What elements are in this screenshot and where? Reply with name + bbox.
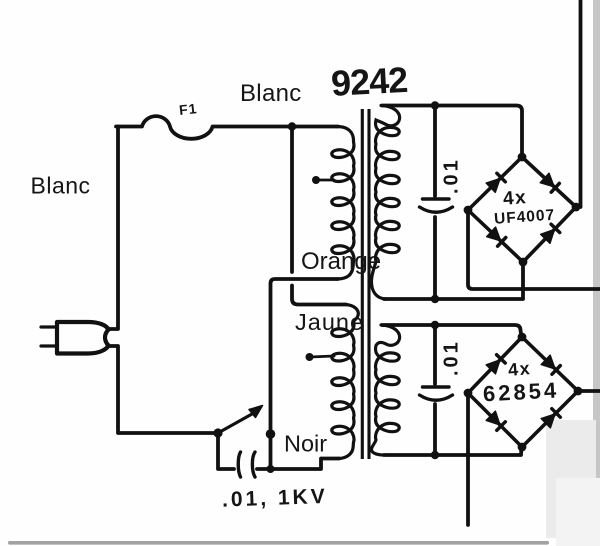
transformer T1 upper primary winding — [332, 127, 354, 280]
wire: plug upper terminal up to top Blanc wire — [108, 127, 119, 330]
wire: BR2 right vertex DC lead off-page right — [578, 389, 600, 393]
wire: upper filter cap C1 bottom lead — [433, 217, 437, 299]
transformer T1 upper secondary winding — [371, 106, 399, 300]
svg-text:9242: 9242 — [330, 59, 408, 104]
transformer T1 core left lamination — [361, 109, 364, 459]
wire: Jaune feed down x=292 (break where it crosses Orange wire) — [290, 127, 294, 273]
wire: Orange lead left then down to switch fixed contact — [271, 279, 339, 469]
junction: switch fixed contact — [266, 429, 276, 439]
capacitor C1 flat plate — [423, 197, 450, 200]
lower primary tap lead — [310, 356, 334, 357]
junction: switch pole — [213, 428, 222, 437]
svg-text:.01: .01 — [441, 157, 463, 194]
capacitor C2 flat plate — [423, 385, 450, 388]
capacitor C2 curved plate — [420, 395, 453, 400]
upper primary tap lead — [317, 179, 334, 182]
junction: C2 bottom node — [431, 451, 439, 459]
wire: upper secondary top to bridge BR1 top vertex — [382, 106, 522, 157]
transformer T1 lower primary winding — [332, 305, 358, 459]
svg-text:.01, 1KV: .01, 1KV — [222, 485, 328, 512]
wire: upper filter cap C1 top lead — [433, 106, 437, 197]
wire: BR1 right vertex DC lead right then up off-page — [576, 0, 581, 207]
transformer T1 core right lamination — [367, 109, 370, 459]
wire: BR1 left vertex DC lead down then right off-page — [468, 211, 600, 289]
svg-text:4x: 4x — [507, 358, 532, 380]
switch S1 lever with arrow tip — [218, 406, 263, 434]
wire: Noir lead with step to lower primary — [271, 459, 340, 470]
wire: plug lower terminal down and along bottom to switch pole — [108, 346, 219, 433]
svg-text:Blanc: Blanc — [240, 80, 302, 107]
scan artifact: right gray band — [593, 0, 600, 496]
wire: snubber branch below switch pole — [218, 433, 234, 469]
wire: upper secondary bottom to bridge BR1 bottom vertex — [384, 262, 523, 299]
transformer T1 lower secondary winding — [371, 325, 399, 455]
wire: lower filter cap C2 top lead — [433, 325, 437, 384]
wire: lower secondary bottom to bridge BR2 bottom vertex — [384, 447, 522, 455]
junction: C1 top node — [431, 101, 439, 109]
scan artifact: bottom gray line — [8, 541, 549, 545]
svg-text:4x: 4x — [502, 187, 528, 210]
bridge rectifier BR1 — [464, 153, 581, 267]
wire: BR2 left vertex DC lead straight down — [466, 394, 470, 525]
wire: lower filter cap C2 bottom lead — [433, 404, 437, 455]
wire: lower secondary top to bridge BR2 top vertex — [382, 325, 522, 337]
wire: top Blanc run with fuse F1 bump — [116, 116, 338, 139]
junction: snubber/Noir node — [267, 465, 275, 473]
svg-text:62854: 62854 — [482, 377, 559, 406]
junction: C2 top node — [431, 321, 439, 329]
AC plug P1 — [41, 322, 109, 354]
wire: snubber right lead to fixed-contact line — [257, 467, 271, 471]
junction: top wire / Jaune feed — [288, 122, 296, 130]
bridge rectifier BR2 — [464, 333, 583, 452]
scan artifact: bottom-right light blob — [546, 420, 596, 538]
svg-text:Noir: Noir — [284, 431, 327, 457]
capacitor C1 curved plate — [420, 207, 453, 212]
svg-text:Jaune: Jaune — [295, 309, 364, 335]
capacitor C3 snubber plates — [238, 452, 255, 477]
svg-text:Blanc: Blanc — [31, 173, 91, 199]
svg-text:F1: F1 — [178, 100, 198, 118]
svg-text:Orange: Orange — [301, 248, 381, 275]
svg-text:.01: .01 — [441, 339, 463, 376]
junction: C1 bottom node — [431, 295, 439, 303]
